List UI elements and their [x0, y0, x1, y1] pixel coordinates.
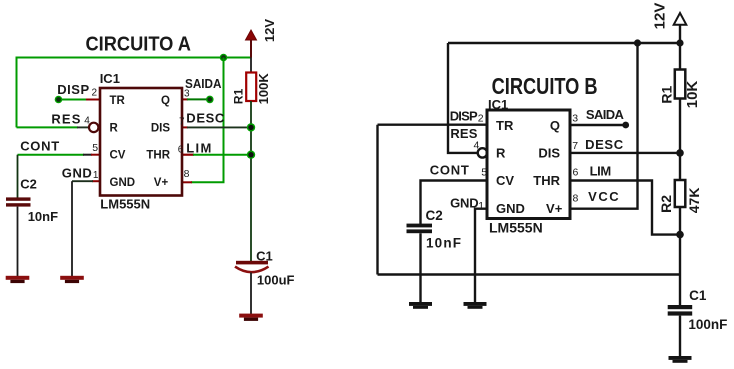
svg-text:4: 4 — [474, 140, 480, 152]
pin name CV (A) — [110, 149, 126, 161]
svg-text:3: 3 — [572, 112, 578, 124]
pin name DIS (A) — [151, 122, 171, 134]
pin number 6 (B) — [573, 167, 579, 179]
node junction LIM/R2 bottom B — [676, 231, 684, 239]
svg-text:CIRCUITO B: CIRCUITO B — [492, 73, 598, 99]
label IC1 (A) — [100, 71, 120, 86]
node SAIDA endpoint dot B — [622, 122, 629, 129]
svg-text:Q: Q — [550, 118, 560, 133]
node DISP endpoint dot A — [55, 96, 63, 104]
svg-text:DISP: DISP — [450, 109, 478, 124]
label RES (A) — [51, 111, 80, 126]
wire DISP pin2 A — [59, 99, 101, 101]
label GND (A) — [62, 166, 92, 181]
pin number 1 (A) — [93, 170, 99, 181]
wire CONT pin5 A — [18, 154, 101, 156]
wire LIM pin6 B — [570, 181, 680, 235]
svg-text:THR: THR — [146, 149, 170, 161]
label SAIDA (A) — [185, 76, 222, 91]
svg-text:12V: 12V — [652, 3, 669, 30]
svg-text:CIRCUITO A: CIRCUITO A — [85, 32, 191, 55]
ground C1 (B) — [669, 356, 692, 363]
svg-text:1: 1 — [93, 170, 99, 181]
wire 12V to R1 top A — [250, 58, 252, 74]
capacitor C1 (A, polarized) — [235, 261, 269, 272]
pin name THR (A) — [146, 149, 170, 161]
value 10nF (B) — [426, 236, 461, 251]
pin number 8 (A) — [184, 168, 190, 180]
svg-text:SAIDA: SAIDA — [185, 76, 222, 91]
svg-text:DESC: DESC — [585, 137, 624, 152]
svg-text:VCC: VCC — [588, 189, 619, 204]
svg-text:V+: V+ — [154, 177, 169, 189]
svg-text:DIS: DIS — [151, 122, 171, 134]
label R1 (A, rotated) — [232, 88, 246, 104]
svg-text:CV: CV — [496, 173, 514, 188]
svg-text:R1: R1 — [659, 86, 675, 104]
ground GND pin (A) — [60, 276, 84, 283]
pin number 7 (A) — [179, 116, 185, 127]
label C2 (A) — [20, 177, 37, 192]
pin number 2 (A) — [92, 87, 98, 98]
wire 12V rail A (horizontal y=57.5) — [17, 57, 252, 59]
pin name Q (A) — [161, 95, 170, 107]
node SAIDA endpoint dot A — [206, 96, 214, 104]
svg-text:12V: 12V — [262, 19, 277, 42]
node junction LIM/R1 (A) — [247, 151, 255, 159]
wire left riser A (x=16.5) — [16, 57, 18, 128]
label DISP (A) — [57, 82, 89, 97]
resistor R1 (B) — [675, 70, 686, 99]
pin name V+ (B) — [546, 201, 563, 216]
svg-text:2: 2 — [92, 87, 98, 98]
wire LIM pin6 A — [182, 154, 251, 156]
pin number 3 (A) — [184, 88, 190, 99]
pin number 5 (B) — [481, 167, 487, 179]
svg-text:Q: Q — [161, 95, 170, 107]
wire SAIDA pin3 A — [182, 98, 210, 100]
svg-text:1: 1 — [478, 200, 484, 212]
label C2 (B) — [426, 208, 443, 223]
svg-text:10nF: 10nF — [28, 209, 58, 224]
svg-text:CV: CV — [110, 149, 126, 161]
label RES (B) — [450, 126, 477, 141]
label IC1 (B) — [488, 97, 508, 112]
svg-text:LM555N: LM555N — [489, 220, 543, 236]
svg-text:GND: GND — [110, 177, 136, 189]
wire DESC pin7 B — [570, 152, 680, 154]
value 100nF (B) — [688, 317, 727, 332]
wire GND pin1 B — [475, 209, 487, 303]
svg-text:R1: R1 — [232, 88, 246, 104]
svg-text:CONT: CONT — [20, 138, 59, 153]
ground C1 (A) — [239, 314, 263, 321]
svg-text:DIS: DIS — [538, 146, 560, 161]
label GND (B) — [450, 195, 479, 210]
svg-text:5: 5 — [92, 142, 98, 154]
value 47K (B, rotated) — [686, 188, 702, 214]
svg-text:TR: TR — [496, 118, 514, 133]
svg-text:8: 8 — [184, 168, 190, 180]
pin name THR (B) — [533, 173, 560, 188]
svg-text:47K: 47K — [686, 188, 702, 214]
svg-text:V+: V+ — [546, 201, 563, 216]
wire GND pin1 A — [72, 180, 100, 182]
svg-text:GND: GND — [62, 166, 92, 181]
svg-text:7: 7 — [572, 140, 578, 152]
wire VCC pin8 B — [570, 43, 638, 209]
pin name DIS (B) — [538, 146, 560, 161]
pin 4 inverting bubble (A) — [89, 123, 98, 132]
pin name GND (A) — [110, 177, 136, 189]
label R2 (B, rotated) — [658, 195, 674, 213]
label DISP (B) — [450, 109, 478, 124]
svg-text:100nF: 100nF — [688, 317, 727, 332]
svg-text:CONT: CONT — [430, 163, 469, 178]
wire C2 bottom to ground A — [17, 207, 19, 277]
wire TR pin2 B (to left riser) — [378, 123, 488, 125]
svg-text:DISP: DISP — [57, 82, 89, 97]
label R1 (B, rotated) — [659, 86, 675, 104]
wire DESC pin7 A — [182, 126, 251, 128]
label C1 (A) — [256, 249, 273, 264]
node junction R1 line/rail B — [676, 39, 683, 46]
pin name Q (B) — [550, 118, 560, 133]
capacitor C1 (B) — [668, 305, 693, 316]
label LM555N (B) — [489, 220, 543, 236]
svg-text:C2: C2 — [426, 208, 443, 223]
supply 12V arrow B — [674, 13, 687, 43]
label 12V (A, rotated) — [262, 19, 277, 42]
value 10K (B, rotated) — [684, 81, 701, 109]
pin 4 inverting bubble (B) — [478, 148, 487, 157]
wire C1 bottom to ground A — [250, 273, 252, 315]
svg-text:SAIDA: SAIDA — [586, 107, 625, 122]
resistor R1 (A) — [246, 73, 256, 102]
value 100uF (A) — [257, 273, 295, 288]
svg-text:3: 3 — [184, 88, 190, 99]
label CONT (A) — [20, 138, 59, 153]
wire C2 bottom to ground B — [419, 233, 421, 302]
pin name R (B) — [496, 146, 506, 161]
pin name TR (A) — [110, 95, 126, 107]
wire RES pin4 riser B (x=448 from rail) — [448, 43, 478, 153]
svg-text:C1: C1 — [689, 288, 707, 303]
value 10nF (A) — [28, 209, 58, 224]
svg-text:7: 7 — [179, 116, 185, 127]
wire V+ pin8 A — [182, 181, 225, 183]
pin number 7 (B) — [572, 140, 578, 152]
svg-text:8: 8 — [573, 193, 579, 205]
svg-text:R: R — [110, 122, 119, 134]
pin name R (A) — [110, 122, 119, 134]
svg-text:DESC: DESC — [186, 111, 225, 126]
wire left riser B (x=377.5) — [376, 125, 378, 275]
svg-text:4: 4 — [84, 115, 90, 126]
svg-text:10nF: 10nF — [426, 236, 461, 251]
svg-text:TR: TR — [110, 95, 126, 107]
label SAIDA (B) — [586, 107, 625, 122]
svg-text:GND: GND — [450, 195, 479, 210]
resistor R2 (B) — [675, 180, 686, 207]
label LIM (B) — [590, 164, 612, 179]
pin number 2 (B) — [478, 112, 484, 124]
svg-text:IC1: IC1 — [488, 97, 508, 112]
svg-text:R: R — [496, 146, 506, 161]
svg-text:6: 6 — [573, 167, 579, 179]
pin number 8 (B) — [573, 193, 579, 205]
wire bottom feedback to C1 B (y=274.5) — [378, 273, 681, 275]
wire C2 top branch A — [17, 155, 19, 199]
pin name CV (B) — [496, 173, 514, 188]
pin number 5 (A) — [92, 142, 98, 154]
pin number 1 (B) — [478, 200, 484, 212]
pin number 4 (A) — [84, 115, 90, 126]
svg-text:100uF: 100uF — [257, 273, 295, 288]
pin number 6 (A) — [178, 144, 184, 155]
supply 12V arrow A — [246, 30, 257, 58]
wire SAIDA pin3 B — [570, 124, 626, 126]
capacitor C2 (B) — [407, 224, 433, 234]
label LM555N (A) — [100, 197, 150, 212]
svg-text:IC1: IC1 — [100, 71, 120, 86]
label VCC (B) — [588, 189, 619, 204]
svg-text:RES: RES — [51, 111, 80, 126]
svg-text:LIM: LIM — [186, 140, 211, 155]
label DESC (B) — [585, 137, 624, 152]
svg-text:10K: 10K — [684, 81, 701, 109]
label C1 (B) — [689, 288, 707, 303]
svg-text:LM555N: LM555N — [100, 197, 150, 212]
value 100K (A, rotated) — [256, 73, 271, 105]
ground C2 (B) — [409, 302, 432, 309]
node junction DESC/R1/R2 B — [676, 149, 684, 157]
svg-text:100K: 100K — [256, 73, 271, 105]
wire CONT pin5 B — [421, 181, 488, 225]
pin number 4 (B) — [474, 140, 480, 152]
label 12V (B, rotated) — [652, 3, 669, 30]
wire V+ riser A (x=223.5) — [223, 58, 225, 183]
svg-text:THR: THR — [533, 173, 560, 188]
svg-text:2: 2 — [478, 112, 484, 124]
label DESC (A) — [186, 111, 225, 126]
ground C2 (A) — [6, 276, 30, 283]
wire R1 bottom to C1 top B (x=680) — [679, 99, 681, 306]
wire C1 bottom to ground B — [679, 316, 681, 357]
svg-text:6: 6 — [178, 144, 184, 155]
wire 12V rail B (y=43) — [448, 42, 680, 44]
pin name V+ (A) — [154, 177, 169, 189]
wire R1 bottom to C1 (A) — [250, 101, 252, 262]
pin number 3 (B) — [572, 112, 578, 124]
IC body IC1 LM555N (B) — [487, 110, 570, 219]
pin name GND (B) — [496, 201, 525, 216]
node junction DESC/R1 (A) — [247, 123, 255, 131]
svg-text:LIM: LIM — [590, 164, 612, 179]
svg-text:C1: C1 — [256, 249, 273, 264]
wire GND riser to ground A — [71, 181, 73, 276]
title CIRCUITO A — [85, 32, 191, 55]
svg-text:GND: GND — [496, 201, 525, 216]
label CONT (B) — [430, 163, 469, 178]
node junction rail/V+ riser A — [220, 54, 228, 62]
svg-text:R2: R2 — [658, 195, 674, 213]
title CIRCUITO B — [492, 73, 598, 99]
IC body IC1 LM555N (A) — [100, 88, 182, 196]
wire RES pin4 A — [17, 126, 90, 128]
svg-text:5: 5 — [481, 167, 487, 179]
ground GND pin (B) — [464, 302, 487, 309]
svg-text:C2: C2 — [20, 177, 37, 192]
pin name TR (B) — [496, 118, 514, 133]
wire rail to R1 top B — [679, 43, 681, 70]
node junction VCC riser/rail B — [634, 39, 641, 46]
capacitor C2 (A) — [6, 197, 31, 206]
label LIM (A) — [186, 140, 211, 155]
